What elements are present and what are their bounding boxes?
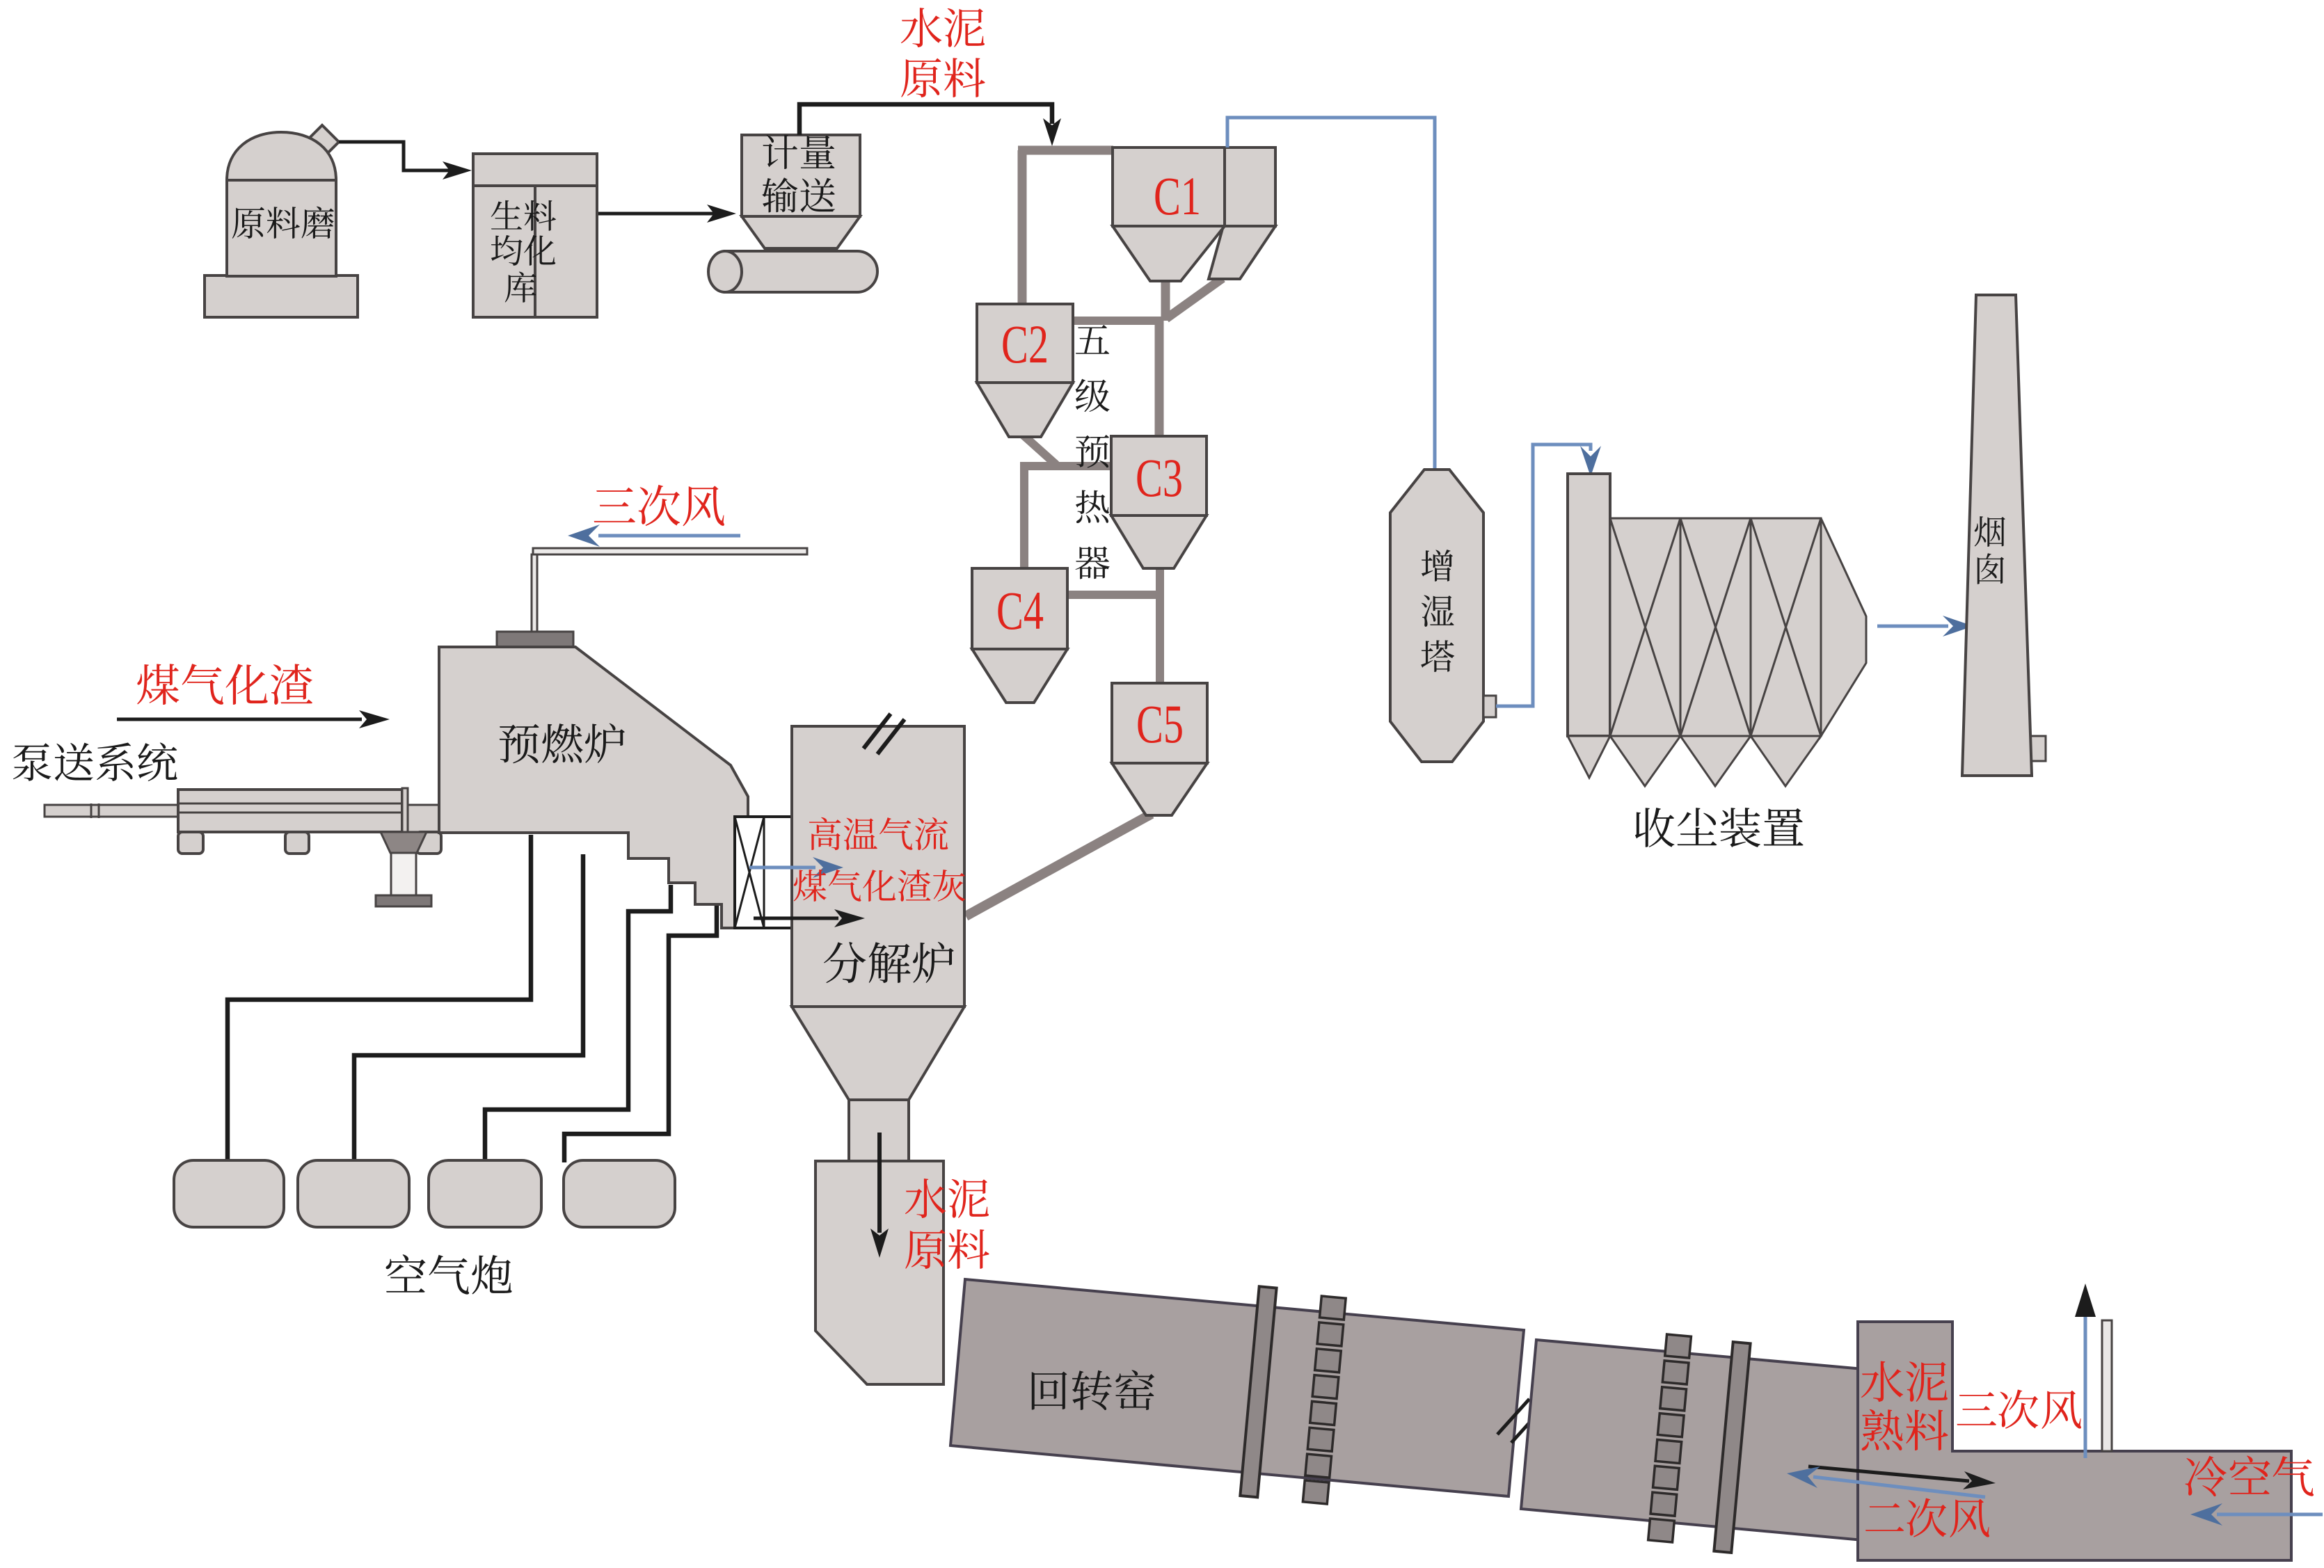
label 分解炉 — [824, 942, 954, 983]
blue arrow cold air left — [2190, 1503, 2323, 1526]
wire air cannon 2 — [354, 854, 583, 1162]
black arrow clinker right — [1808, 1466, 1996, 1489]
black arrow 煤气化渣 — [117, 710, 390, 728]
svg-text:C3: C3 — [1136, 447, 1183, 508]
humidifying tower outlet nub — [1483, 696, 1496, 717]
duct horizontal below C2 — [1024, 462, 1113, 470]
pre-combustion furnace 预燃炉 body — [439, 647, 748, 928]
cyclone C4 — [972, 568, 1067, 703]
wire feeder to preheater 水泥原料 — [799, 104, 1061, 146]
duct horizontal C1-C2 level — [1022, 317, 1162, 325]
cyclone C1 left vessel — [1113, 147, 1225, 281]
wire air cannon 4 — [564, 906, 717, 1162]
tertiary air thin pipe — [532, 548, 807, 634]
connecting valve box — [735, 817, 793, 928]
humidifying tower 增湿塔 — [1390, 470, 1483, 762]
label C1 — [1154, 166, 1201, 226]
dust collector outlet pentagon — [1821, 518, 1866, 736]
svg-text:C5: C5 — [1136, 694, 1184, 754]
label 高温气流 — [809, 817, 948, 851]
label 预燃炉 — [500, 723, 625, 764]
blue arrow dust collector to chimney — [1877, 616, 1973, 637]
dust collector hopper 3 — [1751, 736, 1821, 786]
air cannon 1 — [174, 1160, 284, 1227]
rotary kiln section 2 — [1521, 1340, 1879, 1540]
conveyor roller cylinder — [708, 251, 877, 292]
platform foot 3 — [416, 832, 441, 854]
calciner taper — [792, 1007, 964, 1100]
duct main vertical to C3 — [1155, 317, 1164, 438]
label 三次风 upper — [594, 485, 724, 526]
platform foot 2 — [285, 832, 309, 854]
svg-text:C4: C4 — [996, 580, 1044, 641]
metering conveyor 计量输送 box — [742, 135, 860, 216]
blue arrow hot gas — [749, 857, 843, 878]
raw material mill 原料磨 chute diamond — [305, 125, 339, 159]
label 水泥原料 mid — [905, 1178, 989, 1269]
svg-text:C2: C2 — [1001, 314, 1049, 374]
kiln1 girth gear — [1303, 1296, 1346, 1504]
label 生料均化库 — [491, 200, 556, 303]
duct C5 outlet diagonal — [966, 814, 1152, 916]
label 煤气化渣灰 — [794, 870, 966, 902]
duct C4 to riser horizontal — [1069, 591, 1160, 599]
cyclone C5 — [1112, 683, 1207, 815]
label 收尘装置 — [1635, 808, 1804, 847]
label 原料磨 — [232, 207, 334, 239]
label 水泥熟料 — [1861, 1361, 1948, 1450]
wire silo to feeder — [598, 205, 736, 223]
label 冷空气 — [2186, 1455, 2314, 1496]
label C2 — [1001, 314, 1049, 374]
cyclone C1 right vessel — [1209, 147, 1275, 279]
wire air cannon 3 — [485, 885, 671, 1162]
kiln2 tyre band — [1714, 1342, 1750, 1553]
label C4 — [996, 580, 1044, 641]
air cannon 3 — [429, 1160, 541, 1227]
dust collector hopper under inlet — [1568, 736, 1610, 778]
raw material mill 原料磨 body — [227, 132, 336, 276]
blue gas pipe humidifier to dust collector — [1496, 445, 1601, 706]
air cannon 4 — [564, 1160, 675, 1227]
label 三次风 lower — [1957, 1389, 2081, 1429]
pre-combustion furnace cap — [497, 632, 573, 647]
cyclone C3 — [1111, 436, 1207, 568]
kiln break symbol — [1497, 1399, 1543, 1443]
blue gas pipe C1 to humidifier — [1227, 118, 1446, 505]
dust collector inlet column — [1568, 474, 1610, 736]
label 水泥原料 top — [901, 8, 985, 97]
duct C1 left outlet — [1161, 278, 1170, 321]
label 煤气化渣 — [137, 664, 312, 705]
kiln1 tyre band — [1240, 1286, 1276, 1497]
label 回转窑 — [1032, 1370, 1155, 1410]
duct vertical to C4 — [1020, 462, 1028, 570]
label C5 — [1136, 694, 1184, 754]
dust collector hopper 1 — [1610, 736, 1680, 786]
blue arrow secondary air left — [1787, 1466, 1985, 1497]
chimney 烟囱 nub — [2023, 736, 2046, 761]
blue arrow 三次风 to left — [568, 525, 740, 547]
platform pedestal — [376, 832, 431, 906]
air cannon 2 — [298, 1160, 409, 1227]
duct C3 outlet vertical — [1156, 566, 1164, 687]
label 增湿塔 — [1421, 550, 1454, 672]
wire air cannon 1 — [228, 835, 531, 1162]
blue arrow tertiary air up — [2075, 1283, 2096, 1458]
label 空气炮 — [386, 1254, 512, 1294]
label 计量输送 — [762, 135, 835, 213]
black arrow slag ash — [754, 909, 865, 927]
label 烟囱 — [1975, 516, 2005, 584]
metering conveyor hopper — [742, 216, 860, 248]
kiln hood and cooler — [1858, 1322, 2291, 1560]
calciner neck — [849, 1100, 909, 1161]
platform foot 1 — [178, 832, 203, 854]
pump platform body — [178, 788, 443, 833]
raw material mill 原料磨 base — [205, 275, 358, 317]
duct riser to C1 — [1018, 150, 1027, 307]
kiln inlet chute — [815, 1161, 944, 1384]
label 泵送系统 — [13, 742, 177, 781]
wire mill to silo — [339, 142, 472, 179]
label 五级预热器 vertical — [1075, 325, 1109, 579]
cooler stack bar — [2102, 1320, 2112, 1451]
duct C2 outlet diagonal — [1023, 435, 1056, 465]
black arrow 水泥原料 down — [870, 1133, 889, 1258]
rotary kiln section 1 — [950, 1279, 1524, 1496]
svg-text:C1: C1 — [1154, 166, 1201, 226]
dust collector hopper 2 — [1680, 736, 1751, 786]
calciner break symbol — [863, 714, 905, 754]
raw meal homogenizing silo 生料均化库 box — [473, 154, 597, 317]
kiln2 girth gear — [1648, 1334, 1692, 1542]
calciner 分解炉 body — [792, 726, 964, 1007]
duct top to C1 — [1018, 146, 1113, 155]
dust collector body — [1610, 518, 1821, 736]
label 二次风 — [1865, 1498, 1989, 1537]
pump lance rod — [45, 803, 178, 818]
duct C1 right outlet diagonal — [1166, 278, 1223, 319]
label C3 — [1136, 447, 1183, 508]
cyclone C2 — [977, 304, 1073, 437]
chimney 烟囱 — [1962, 295, 2032, 776]
